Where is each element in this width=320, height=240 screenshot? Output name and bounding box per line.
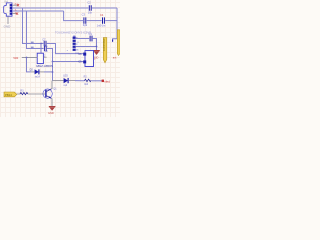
svg-text:GND: GND [4, 25, 12, 29]
svg-text:ant: ant [113, 56, 117, 60]
svg-text:1n0 0m: 1n0 0m [97, 23, 106, 27]
wire B: pin3 horizontal run y=11 [12, 10, 64, 12]
connector P2 body [85, 51, 94, 67]
left vertical drop VB from wire B [27, 11, 32, 49]
capacitor C2 plates (series on wire A) [89, 5, 91, 11]
connector U4 pin 4 pad [10, 13, 12, 15]
no-connect X pin1 [17, 4, 19, 6]
capacitor C7 plates (series on W1) [44, 41, 46, 47]
R1 right pin tick [43, 56, 46, 58]
W2 continues to corner [47, 49, 53, 62]
yellow net flag (bottom left) [4, 92, 17, 97]
Q1 collector lead up [51, 81, 53, 89]
connector U4 pin1 stub [12, 4, 18, 6]
LED wire from collector line [53, 80, 64, 82]
yellow net flag (vertical, antenna) [103, 38, 107, 63]
no-connect X pin4 [16, 12, 18, 14]
junction node at diode wire [52, 71, 54, 73]
junction node on VCC wire [26, 57, 28, 59]
diode D2 right pin [40, 71, 45, 73]
svg-text:C2: C2 [87, 0, 91, 4]
wire R2 to net label [92, 80, 102, 82]
svg-text:GND: GND [48, 111, 54, 115]
Q1 emitter arrow [49, 96, 51, 98]
Q1 emitter lead down [51, 98, 53, 106]
svg-text:vled: vled [104, 80, 110, 84]
vertical continues down x52.5 [52, 62, 54, 81]
wire A: pin2 horizontal run y=8 [12, 7, 88, 9]
LED D1 symbol [64, 78, 68, 83]
svg-text:vcc: vcc [13, 56, 18, 60]
capacitor C8 plates (series on W2) [44, 46, 46, 52]
svg-text:C4: C4 [100, 13, 104, 17]
VCC wire [22, 57, 37, 59]
connector U4 pin 3 pad [10, 10, 12, 12]
svg-text:10n: 10n [88, 10, 93, 14]
pin speck on W2 [31, 47, 34, 48]
svg-text:3p9: 3p9 [83, 23, 88, 27]
svg-text:PB14: PB14 [5, 93, 12, 97]
svg-text:ss14: ss14 [35, 75, 41, 78]
left vertical drop VA from wire A [23, 8, 32, 44]
connector U4 pin 2 pad [10, 7, 12, 9]
junction node on W1 [40, 43, 42, 45]
pin speck on W1 [31, 42, 34, 43]
svg-text:PB10.1BY2: PB10.1BY2 [102, 39, 105, 52]
capacitor C1 plates (series) [90, 36, 92, 42]
svg-text:C7: C7 [42, 37, 46, 41]
resistor R3 squiggle [20, 93, 28, 95]
wire C1 to GND corner [93, 39, 97, 51]
U3 top tick [73, 35, 75, 37]
wire flag to R3 [17, 93, 20, 95]
wire jog to antenna pin [113, 39, 117, 42]
resistor R1 body [37, 53, 43, 63]
svg-text:TOUCH+KEY2 DNYS IC5VB: TOUCH+KEY2 DNYS IC5VB [55, 30, 91, 34]
capacitor C3 plates (series on wire B) [84, 17, 86, 23]
P2 pin pad C5 [83, 60, 86, 63]
wire B between caps [87, 20, 102, 22]
P2 pin pad C6 [83, 53, 86, 56]
svg-text:1k0: 1k0 [84, 83, 89, 86]
connector U4 pin4 stub [12, 13, 17, 15]
junction node [52, 61, 54, 63]
red net diamond [102, 80, 104, 82]
wire B drop at x63.6 [64, 11, 83, 21]
svg-text:C3: C3 [82, 13, 86, 17]
resistor R2 squiggle [84, 79, 91, 81]
ground flag (middle) [93, 50, 100, 51]
U3 pin wire y46.5 [76, 46, 97, 48]
wire B to right corner [105, 20, 117, 22]
connector U4 pin 1 pad [10, 4, 12, 6]
W1 continues to corner [47, 44, 84, 54]
yellow flag at right edge [117, 30, 120, 56]
wire R3 to base [28, 93, 45, 95]
Q1 emitter diagonal [47, 96, 52, 99]
branch to C5 pin [53, 61, 84, 63]
Q1 base bar [45, 90, 46, 97]
junction node [96, 46, 98, 48]
svg-text:GBLZ.1JBF0S: GBLZ.1JBF0S [36, 64, 53, 68]
U3 pin wire y38.5 [76, 38, 89, 40]
W1 wire y43.5 [31, 43, 43, 45]
wire A after cap C2 [92, 7, 117, 9]
Q1 collector diagonal [47, 89, 52, 92]
antenna pin tick [112, 40, 114, 42]
branch from W1 down to R1 [40, 44, 42, 54]
wire LED to R2 [75, 80, 84, 82]
wire A corner down at right edge [116, 8, 118, 39]
svg-text:LED: LED [63, 75, 68, 78]
diode D2 left pin [31, 71, 35, 73]
U3 pin pads column [73, 37, 76, 39]
ground flag (bottom) [49, 106, 56, 107]
capacitor C4 plates (series on wire B) [103, 17, 105, 23]
connector U4 bottom shield pin [7, 16, 9, 24]
diode D2 symbol [35, 69, 39, 74]
W2 wire y48.5 [31, 48, 44, 50]
background [0, 0, 120, 117]
connector U4 (USB) body [4, 3, 12, 16]
wire diode to collector line [44, 71, 53, 73]
transistor Q1 circle [43, 89, 52, 98]
LED right pin [69, 80, 75, 82]
grid [0, 0, 120, 117]
svg-text:C1: C1 [89, 32, 93, 36]
branch down to diode D2 [27, 58, 32, 72]
